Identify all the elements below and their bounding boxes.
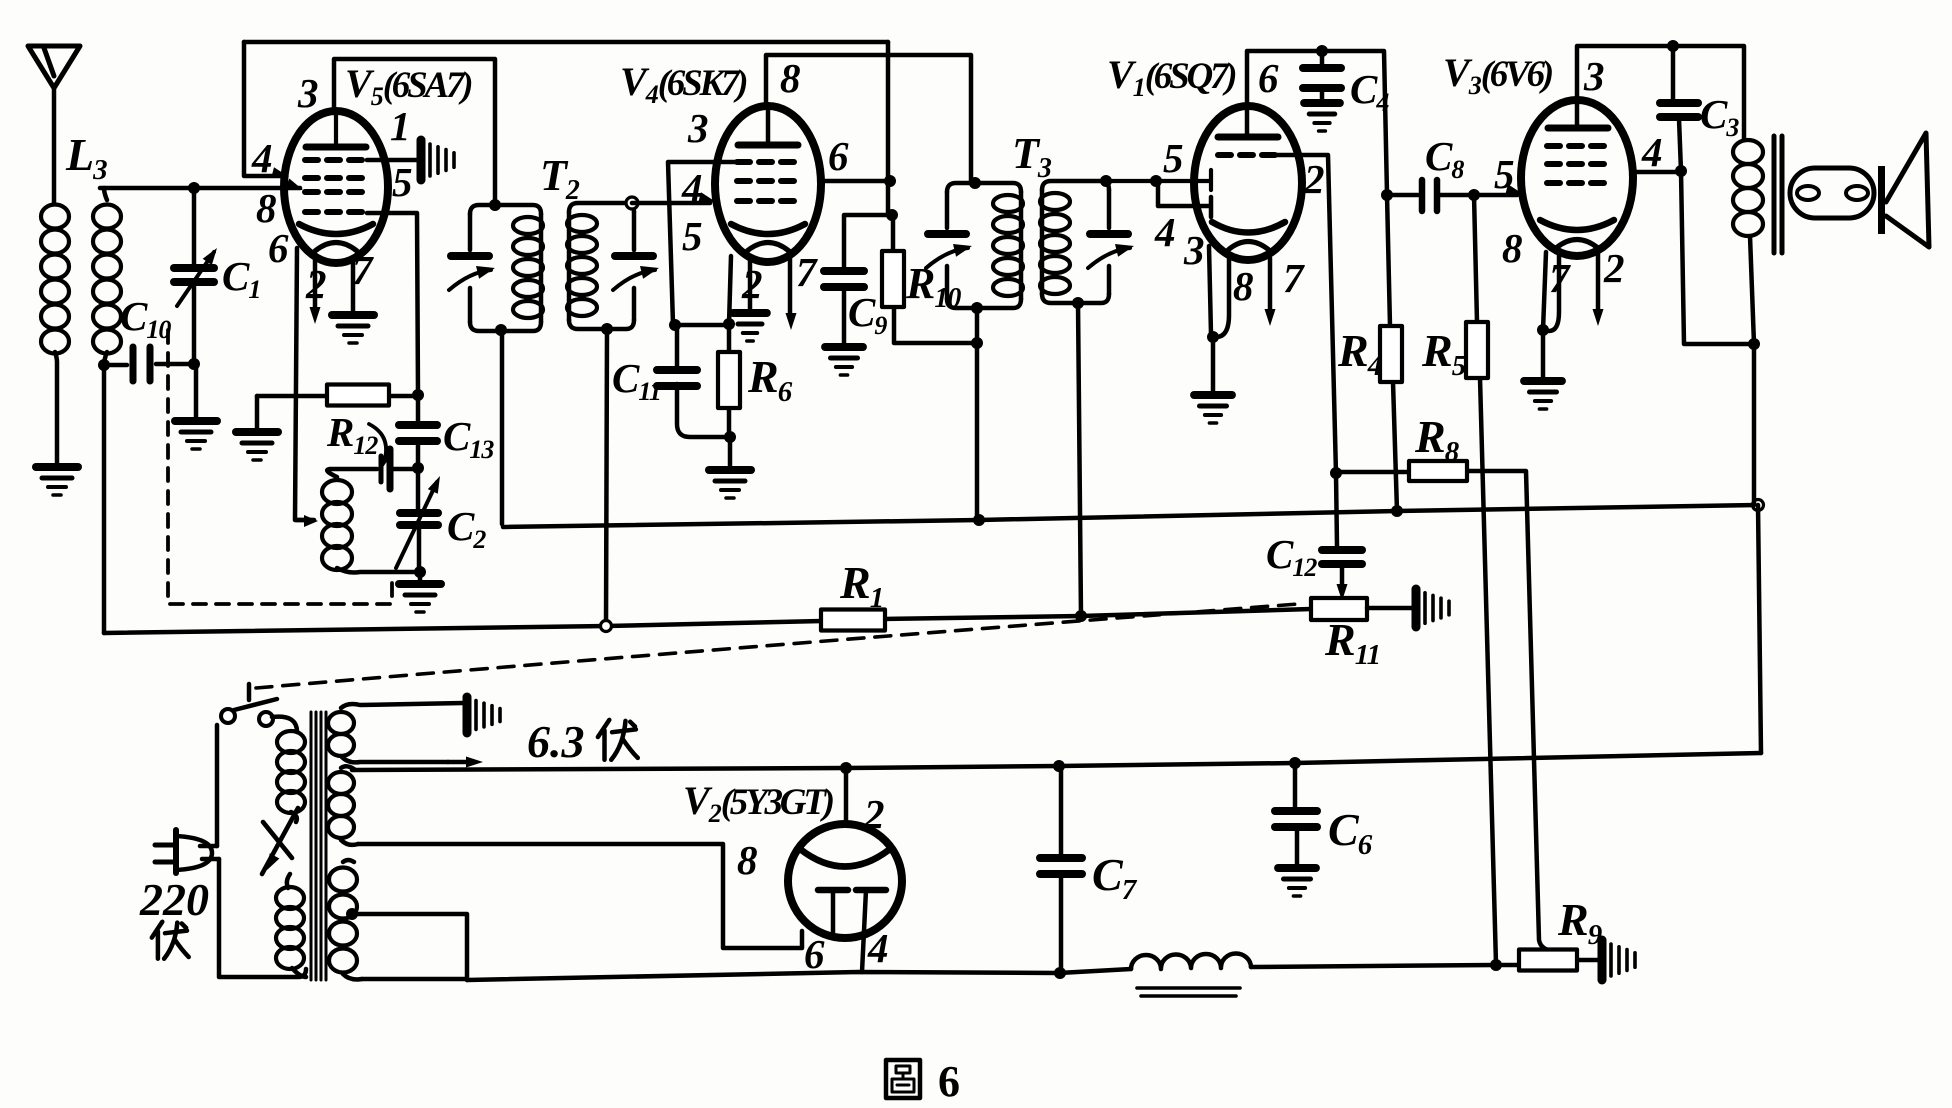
node (C3 tap) — [1667, 40, 1679, 52]
chassis ground (R9) — [1598, 940, 1607, 980]
wire (V1 pins 3+8 to ground) — [1209, 246, 1229, 394]
svg-text:2: 2 — [863, 791, 885, 837]
tube V1 (6SQ7) envelope — [1194, 106, 1302, 260]
chassis ground (heater) — [463, 697, 472, 733]
node (V1 cathode join) — [1207, 331, 1219, 343]
node (R12 right) — [412, 389, 424, 401]
output transformer core — [1772, 136, 1777, 253]
ground (antenna coil) — [36, 463, 78, 471]
node (L3 bottom / C10 / AVC) — [98, 359, 110, 371]
transformer core — [310, 712, 313, 980]
dashed gang line (switch to R11) — [256, 604, 1298, 688]
svg-text:2: 2 — [1303, 156, 1325, 202]
speaker voice coil — [1790, 168, 1874, 218]
arrow (V3 pin2) — [1596, 254, 1601, 312]
svg-text:7: 7 — [352, 247, 374, 293]
svg-text:6: 6 — [938, 1057, 960, 1106]
potentiometer R11 — [1311, 598, 1367, 620]
node (V4 cathode left) — [669, 319, 681, 331]
svg-text:4: 4 — [1154, 209, 1176, 255]
node (V3 cathode) — [1537, 324, 1549, 336]
node (R6 bottom) — [724, 431, 736, 443]
ground (V5 pin7) — [332, 311, 374, 319]
transformer primary lower — [287, 874, 290, 888]
ground (C4) — [1304, 99, 1340, 107]
wire (AVC line left riser) — [102, 365, 107, 633]
svg-text:7: 7 — [1283, 255, 1305, 301]
svg-text:6: 6 — [268, 225, 289, 271]
T3 secondary can — [1042, 181, 1109, 303]
AVC line with R1 — [104, 609, 1311, 633]
wire (winding to V2 pin8) — [358, 844, 802, 948]
node (R10 bottom) — [971, 337, 983, 349]
tube V5 grids — [305, 157, 367, 163]
node (T3 secondary bottom) — [1072, 297, 1084, 309]
node (V2 cathode B+) — [840, 762, 852, 774]
capacitor C6 — [1295, 763, 1297, 867]
filter choke — [1131, 953, 1251, 969]
arrow (V4 pin7) — [788, 258, 793, 316]
arrow (V5 pin2) — [313, 256, 318, 310]
wire (T3 primary bottom to B+) — [975, 308, 980, 520]
mains plug — [155, 845, 176, 862]
wire (V5 pin3 to T2 primary top) — [334, 59, 495, 203]
wire (L3 to V5 grid) — [100, 186, 300, 191]
ground (C9) — [825, 343, 863, 351]
capacitor (osc feedback) — [379, 456, 384, 482]
svg-text:4: 4 — [251, 135, 273, 181]
svg-text:1: 1 — [390, 103, 411, 149]
HV winding lower — [329, 868, 357, 892]
node (R8 left) — [1330, 467, 1342, 479]
wire (V4 pin5 cathode) — [675, 256, 731, 325]
wire (V1 pin4 hook) — [1158, 181, 1211, 217]
tube V5 (6SA7) envelope — [284, 111, 388, 263]
svg-text:V4(6SK7): V4(6SK7) — [620, 59, 746, 109]
wire (T3 secondary bottom to AVC) — [1078, 303, 1081, 616]
svg-text:5: 5 — [392, 159, 413, 205]
svg-text:5: 5 — [1163, 135, 1184, 181]
capacitor C13 — [416, 395, 421, 468]
wire (V5 pin6 osc grid) — [295, 248, 312, 520]
top bus (V5 grid2 feed) — [244, 40, 888, 45]
svg-text:6: 6 — [804, 931, 825, 977]
svg-text:220: 220 — [139, 874, 209, 925]
ground (V1) — [1194, 391, 1232, 399]
wire (V4 pin3 down) — [668, 162, 737, 324]
capacitor C12 — [1322, 546, 1362, 554]
T2 secondary can — [569, 203, 634, 329]
wire (T2 secondary to V4 grid) — [632, 201, 710, 206]
wire (V3 plate to OT) — [1577, 46, 1744, 140]
node (T2 secondary top) — [626, 197, 638, 209]
svg-text:4: 4 — [681, 165, 703, 211]
arrow (6.3V feed) — [448, 760, 468, 765]
tube V3 grids — [1547, 143, 1609, 149]
wire (R12 left to ground) — [255, 396, 260, 431]
node (C1/C10) — [188, 358, 200, 370]
svg-text:7: 7 — [796, 249, 818, 295]
wire (V4 pin2) — [748, 258, 753, 312]
node (C7 bottom) — [1054, 967, 1066, 979]
svg-text:6: 6 — [1258, 55, 1279, 101]
tube V1 grid — [1218, 152, 1280, 158]
wire (T2 primary bottom to B+ bus) — [500, 331, 505, 524]
ground (C1) — [175, 417, 217, 425]
caption (figure 6) — [886, 1060, 920, 1098]
chassis ground (V5 pin1) — [417, 140, 426, 180]
node (C8 left) — [1381, 189, 1393, 201]
power switch — [221, 709, 235, 723]
tube V2 plates — [818, 887, 848, 894]
resistor R6 — [727, 324, 732, 437]
node (osc cap / C13) — [412, 462, 424, 474]
svg-text:2: 2 — [1603, 245, 1625, 291]
node (T3 primary top) — [969, 177, 981, 189]
wire (OT B+ riser) — [1758, 505, 1761, 753]
tube V1 plate bar — [1218, 134, 1278, 141]
resistor R9 — [1494, 960, 1598, 965]
T2 primary can — [470, 205, 541, 331]
arrow (V1 pin7) — [1268, 258, 1273, 312]
oscillator coil — [322, 480, 352, 504]
capacitor C1 (variable) — [192, 188, 197, 363]
node (V4 cathode right) — [723, 318, 735, 330]
wire (V5 pin1 to chassis) — [367, 158, 417, 163]
wire (V5 pin7) — [351, 258, 356, 314]
node (T3 return on AVC) — [1075, 610, 1087, 622]
resistor R5 — [1474, 195, 1496, 964]
B+ line — [352, 753, 1761, 770]
node (OT bottom) — [1748, 338, 1760, 350]
svg-text:8: 8 — [780, 55, 801, 101]
speaker magnet bar — [1878, 166, 1885, 234]
node (osc coil tap) — [296, 518, 314, 523]
capacitor C8 — [1387, 193, 1472, 198]
B- line — [362, 969, 1131, 980]
wire (V1 pin2 to C12) — [1272, 155, 1337, 546]
wire (V5 pin5 down to C13) — [367, 213, 418, 394]
chassis ground (R11) — [1412, 589, 1421, 627]
wire (V1 pin6 to C8) — [1247, 51, 1387, 194]
capacitor C2 (variable) — [418, 468, 419, 571]
tube V5 cathode arcs — [299, 224, 373, 234]
wire (R6 to ground) — [728, 437, 733, 468]
label fu (volts) — [598, 720, 609, 760]
wire (V3 pins 8+7 to ground) — [1543, 252, 1559, 380]
node (T3 B+ tap) — [973, 514, 985, 526]
node (C7 top) — [1053, 760, 1065, 772]
speaker cone — [1886, 133, 1929, 247]
node (C6 top) — [1289, 757, 1301, 769]
svg-text:8: 8 — [1233, 263, 1254, 309]
tube V2 filament arc — [800, 849, 890, 867]
node (C4 tap) — [1316, 45, 1328, 57]
wire (V3 pin4 / C3 bottom) — [1633, 46, 1754, 344]
heater winding 6.3V — [328, 712, 354, 734]
wire (V5 pin4) — [244, 42, 284, 176]
ground (R12) — [236, 428, 278, 436]
svg-text:V2(5Y3GT): V2(5Y3GT) — [683, 778, 833, 828]
ground (V3) — [1524, 377, 1562, 385]
capacitor C7 — [1059, 766, 1064, 973]
capacitor C10 — [104, 364, 191, 365]
svg-text:V3(6V6): V3(6V6) — [1443, 50, 1552, 100]
tube V3 (6V6) envelope — [1521, 100, 1633, 256]
wire (center tap to B-) — [352, 914, 467, 980]
tube V4 (6SK7) envelope — [715, 106, 821, 262]
node (V4 plate / top bus) — [884, 175, 896, 187]
tube V4 grids — [737, 159, 799, 165]
node (C9 tap) — [886, 209, 898, 221]
tube V1 cathode arcs — [1212, 222, 1285, 233]
label fu (220V) — [152, 922, 163, 959]
node (T2 primary bottom) — [495, 324, 507, 336]
HV winding upper — [328, 772, 354, 794]
ground (V4 pin2) — [733, 309, 767, 317]
svg-text:8: 8 — [737, 837, 758, 883]
node (R9 left) — [1490, 959, 1502, 971]
wire (top bus drop) — [886, 42, 891, 215]
node (T2 return on AVC) — [601, 621, 612, 632]
node (C8 right) — [1468, 189, 1480, 201]
svg-text:3: 3 — [1583, 53, 1605, 99]
node (T3 secondary top) — [1100, 175, 1112, 187]
wire (V4 pin6 plate) — [821, 179, 890, 184]
tube V2 (5Y3GT) envelope — [788, 824, 902, 938]
svg-text:3: 3 — [297, 70, 319, 116]
ground (C6) — [1278, 864, 1316, 872]
svg-text:6.3: 6.3 — [527, 716, 585, 767]
fuse — [262, 808, 298, 874]
resistor R10 — [893, 215, 975, 343]
node (V1 grid branch) — [1150, 175, 1162, 187]
node (output transformer B+) — [1753, 500, 1764, 511]
node (R4 bottom) — [1391, 505, 1403, 517]
arrow (R12 pointer) — [369, 424, 386, 462]
svg-text:3: 3 — [687, 105, 709, 151]
resistor R8 — [1337, 471, 1556, 951]
coil L3 secondary — [93, 205, 121, 229]
svg-text:6: 6 — [828, 133, 849, 179]
coil L3 primary — [41, 205, 69, 229]
capacitor C11 — [677, 325, 727, 437]
tube V3 cathode arcs — [1540, 220, 1614, 230]
svg-text:4: 4 — [1641, 129, 1663, 175]
output transformer primary — [1733, 140, 1763, 164]
antenna — [28, 46, 80, 88]
T3 primary can — [947, 183, 1021, 308]
ground (C2) — [399, 580, 441, 588]
wire (mains top to switch) — [215, 725, 220, 846]
svg-text:3: 3 — [1183, 227, 1205, 273]
wire (B- to R9) — [1251, 965, 1494, 967]
wire (V2 pin2) — [844, 768, 849, 824]
wire (C1 to ground) — [194, 364, 199, 420]
ground (R6) — [709, 466, 751, 474]
node (grid line / C1) — [188, 182, 200, 194]
wire (C8 to V3 grid) — [1474, 193, 1517, 198]
resistor R12 — [257, 394, 416, 399]
node (HV center tap) — [346, 908, 358, 920]
wire (T2 secondary bottom to AVC) — [606, 329, 607, 626]
svg-text:5: 5 — [682, 213, 703, 259]
wire (mains bottom to primary) — [219, 859, 306, 977]
wire (C2 to ground) — [418, 572, 423, 583]
wire (T3 secondary to V1 grid) — [1106, 170, 1211, 190]
capacitor C9 — [844, 215, 892, 346]
node (T2 primary top) — [489, 199, 501, 211]
wire (V4 pin8 to screen bus) — [766, 55, 971, 183]
tube V3 plate bar — [1548, 125, 1608, 132]
dashed gang line C1-C2 — [168, 330, 392, 604]
node (T3 primary bottom) — [971, 302, 983, 314]
arrow (C12 to R11 wiper) — [1340, 566, 1345, 588]
svg-text:8: 8 — [1502, 225, 1523, 271]
svg-text:4: 4 — [867, 925, 889, 971]
capacitor C3 — [1660, 99, 1698, 107]
transformer primary upper — [272, 717, 297, 732]
svg-text:V1(6SQ7): V1(6SQ7) — [1107, 52, 1235, 102]
tube V4 plate bar — [738, 142, 798, 149]
tube V5 plate bar — [306, 144, 366, 151]
B+ bus — [503, 505, 1757, 527]
resistor R4 — [1387, 195, 1397, 511]
resistor R1 — [821, 610, 885, 631]
tube V4 cathode arcs — [731, 224, 805, 234]
node (pin4/C3) — [1675, 165, 1687, 177]
node (T2 secondary bottom) — [601, 323, 613, 335]
capacitor C4 — [1320, 51, 1325, 102]
node (C2 bottom) — [414, 566, 426, 578]
